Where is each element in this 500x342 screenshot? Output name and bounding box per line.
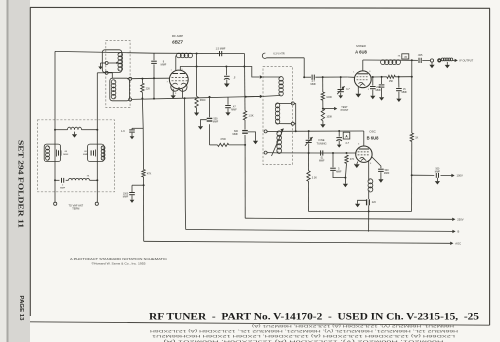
wire 3.3K column xyxy=(308,153,310,171)
left margin strip xyxy=(0,0,30,342)
label TEST POINT xyxy=(341,106,349,112)
bottom rule xyxy=(30,322,490,325)
label 3-7 b xyxy=(345,142,349,145)
wire 100V line xyxy=(412,174,455,177)
svg-text:1K: 1K xyxy=(415,136,418,139)
label .47 MMF xyxy=(231,105,237,111)
wire V7 (B+ column) xyxy=(244,54,247,219)
junction H7 trimmer xyxy=(308,152,310,154)
junction H6 trimmer xyxy=(308,130,310,132)
wire T1b to V2 xyxy=(97,73,105,144)
svg-text:78.: 78. xyxy=(398,56,401,58)
wire right bus xyxy=(411,60,413,211)
label 500 osc xyxy=(384,169,390,175)
capacitor 4.7 MMF xyxy=(304,75,347,80)
resonator R cap xyxy=(91,150,95,157)
svg-text:.005: .005 xyxy=(418,54,423,57)
svg-text:MMF: MMF xyxy=(83,154,89,156)
label 1.5K xyxy=(248,114,253,117)
plate coil 6BZ7 xyxy=(177,53,193,58)
svg-text:3-7: 3-7 xyxy=(345,142,349,145)
svg-text:47K: 47K xyxy=(350,158,355,161)
tube V3 internals xyxy=(358,149,369,161)
label 6BZ7 xyxy=(172,40,183,45)
wire H-cath xyxy=(132,96,263,99)
label 22K xyxy=(146,87,151,90)
resonator L coil xyxy=(46,146,50,160)
node circle T1b xyxy=(105,71,108,74)
node circle W3 top xyxy=(264,130,277,133)
wire H8 xyxy=(308,210,411,212)
svg-text:100K: 100K xyxy=(326,96,332,99)
svg-text:TUNING: TUNING xyxy=(317,141,327,145)
junction cath-V7 xyxy=(245,96,247,98)
label 100K a xyxy=(326,96,332,99)
svg-text:MMF: MMF xyxy=(60,187,66,189)
label 78 xyxy=(398,56,401,58)
svg-text:4700: 4700 xyxy=(220,138,226,141)
wire W2 to H6 xyxy=(294,103,295,131)
tube V2 internals xyxy=(357,74,369,86)
junction H4 bus xyxy=(411,76,413,78)
wire H6 xyxy=(278,131,364,146)
rail B xyxy=(186,230,456,234)
marker box A05 xyxy=(402,54,409,59)
resistor 15K xyxy=(387,75,396,78)
svg-text:A PHOTOFACT STANDARD NOTATION: A PHOTOFACT STANDARD NOTATION SCHEMATIC xyxy=(70,257,168,261)
tube V1 6BZ7 envelope xyxy=(169,70,188,89)
capacitor 220 osc feedthrough xyxy=(355,192,369,212)
resistor 47K osc xyxy=(343,155,348,187)
node circle T1a xyxy=(105,62,108,65)
tube V2 pins xyxy=(353,71,371,91)
svg-text:MMF: MMF xyxy=(376,89,382,92)
wire TEST POINT xyxy=(323,107,337,110)
capacitor 3-7 MMF osc xyxy=(336,131,342,148)
wire V6 screen drop xyxy=(196,54,198,97)
terminal circle ant L xyxy=(54,202,57,205)
resonator box R xyxy=(88,144,104,161)
tube V1 pin labels xyxy=(167,69,189,95)
svg-text:A 6U8: A 6U8 xyxy=(355,49,367,54)
arrow IF OUTPUT xyxy=(453,59,458,62)
svg-text:3-7: 3-7 xyxy=(346,88,350,91)
label 5 MMF xyxy=(336,168,342,174)
coil L2 xyxy=(111,80,116,99)
junction IF node xyxy=(411,59,413,61)
junction 4.7-heater xyxy=(303,76,305,78)
wire heater drop xyxy=(303,58,305,77)
svg-text:MMF: MMF xyxy=(402,91,408,94)
label 1000 MMF xyxy=(123,193,129,199)
svg-text:6800: 6800 xyxy=(200,99,206,102)
svg-text:RF AMP: RF AMP xyxy=(172,34,183,38)
svg-text:RF TUNER - PART No. V-14170-: RF TUNER - PART No. V-14170-2 - USED IN … xyxy=(149,312,480,322)
capacitor .005 xyxy=(412,58,431,63)
svg-text:22K: 22K xyxy=(146,87,151,90)
junction grid 100K xyxy=(322,76,324,78)
node circle W2 bottom xyxy=(291,122,294,125)
svg-text:100K: 100K xyxy=(326,116,332,119)
terminal circle ant R xyxy=(95,202,98,205)
svg-text:MMF: MMF xyxy=(435,171,441,173)
label 2 MMF xyxy=(60,185,66,190)
wire H2 screen xyxy=(180,66,244,70)
coil L1 box (rounded) xyxy=(102,50,122,73)
svg-text:78.: 78. xyxy=(87,175,90,177)
junction input coil right xyxy=(96,129,98,131)
wire V-right through box3 xyxy=(96,144,98,202)
label 500 MMF 100V xyxy=(435,169,441,174)
svg-text:H66M3U2 12L, H66M2U21, H66M2U1: H66M3U2 12L, H66M2U21, H66M2U12L (V), H6… xyxy=(149,329,458,333)
label 4700 xyxy=(220,138,226,141)
label 100K b xyxy=(326,116,332,119)
tube V2 envelope xyxy=(354,71,371,88)
svg-text:OSC: OSC xyxy=(369,130,376,134)
input coil top xyxy=(55,127,97,129)
junction H7 47K xyxy=(346,152,348,154)
junction grid trimmer xyxy=(340,76,342,78)
junction H4 b xyxy=(381,76,383,78)
wire AGC column xyxy=(142,99,143,170)
junction cath-22K xyxy=(141,98,143,100)
ground osc cathode xyxy=(354,162,360,168)
svg-text:MMF: MMF xyxy=(310,83,316,86)
svg-text:1.5 MMF: 1.5 MMF xyxy=(216,48,226,51)
junction input coil left xyxy=(54,129,56,131)
svg-text:PAGE 13: PAGE 13 xyxy=(18,296,24,321)
resistor 3.3K xyxy=(307,171,310,212)
label TO VHF ANT TERM xyxy=(68,205,83,211)
label A 6U8 xyxy=(355,49,367,54)
svg-text:MMF: MMF xyxy=(213,121,219,124)
capacitor .47 MMF xyxy=(225,97,231,116)
junction H2-V6 xyxy=(196,66,198,68)
wire step to mixer grid xyxy=(244,67,259,78)
feedthrough bead xyxy=(437,58,441,62)
capacitor 500 MMF feedthru 100V xyxy=(435,173,440,185)
series coil 78 xyxy=(69,178,98,180)
marker box A xyxy=(343,132,350,139)
series cap 2 MMF xyxy=(55,178,69,183)
rail 250V xyxy=(245,218,455,221)
wire osc to B rail xyxy=(368,211,370,231)
wire coil to junction xyxy=(400,59,412,61)
label OSC xyxy=(369,130,376,134)
label 15K xyxy=(389,80,394,83)
coil L1 xyxy=(118,52,123,71)
resistor 47K xyxy=(142,170,145,178)
resistor 1.5K xyxy=(243,111,246,120)
label 47K xyxy=(147,173,152,176)
label 9 MMF xyxy=(161,60,167,66)
tube V3 pins xyxy=(354,144,372,166)
wire T1b link xyxy=(108,73,112,78)
capacitor 5 MMF xyxy=(330,153,345,178)
ground tube V1 cathode a xyxy=(171,89,176,99)
svg-text:MIXER: MIXER xyxy=(356,44,366,48)
photofact credit xyxy=(70,257,168,266)
wire H4 mixer plate out xyxy=(371,76,412,78)
junction H2 .5MMF xyxy=(225,66,227,68)
capacitor .5 MMF xyxy=(224,67,230,88)
label 220 MMF xyxy=(376,86,382,92)
mixer plate coil xyxy=(381,60,401,65)
wire tube V1 cathode b xyxy=(182,89,184,98)
label 100V xyxy=(457,174,463,178)
label IF OUTPUT xyxy=(460,59,474,63)
label B xyxy=(458,230,460,234)
junction cath V8 xyxy=(209,96,211,98)
svg-text:250V: 250V xyxy=(457,218,463,222)
junction H2 V7 xyxy=(243,66,245,68)
wire mixer plate xyxy=(363,60,381,71)
junction cath-V5 xyxy=(184,97,186,99)
label 47K osc xyxy=(350,158,355,161)
junction H4 15MMF xyxy=(398,76,400,78)
svg-text:H66M2U1, H66M2U2 (V), 12JL2XD6: H66M2U1, H66M2U2 (V), 12JL2XD6H (A) 12JL… xyxy=(252,324,454,328)
node circle T2a xyxy=(127,77,132,80)
heater hook xyxy=(262,53,304,58)
wire H1 top (grid line to RF amp) xyxy=(55,51,245,53)
arrow into box2 upper xyxy=(260,75,263,78)
svg-text:220: 220 xyxy=(372,201,377,204)
svg-text:L2XD66H (A) 12JL2XD66H 12JL2XD: L2XD66H (A) 12JL2XD66H 12JL2XD6H (A) 12J… xyxy=(151,334,455,338)
resistor 22K xyxy=(141,79,144,99)
svg-text:AGC: AGC xyxy=(455,242,461,246)
wire V1 left down xyxy=(54,51,56,202)
junction H6 a xyxy=(295,130,297,132)
oscillator coil xyxy=(368,179,373,192)
label 78 b xyxy=(87,175,90,177)
resonator L cap xyxy=(57,150,61,157)
label .005 xyxy=(418,54,423,57)
wire H7 xyxy=(278,152,357,154)
capacitor 381 stub xyxy=(379,77,385,101)
svg-text:MMF: MMF xyxy=(123,196,129,199)
junction grid-9MMF xyxy=(153,77,155,79)
tube V1 internals xyxy=(172,74,188,85)
junction 100K mid xyxy=(322,100,324,109)
label heater xyxy=(273,53,284,56)
junction grid-22K xyxy=(141,78,143,80)
junction H8 osc xyxy=(368,210,370,212)
vertical text SET 294 FOLDER 11 xyxy=(17,140,26,228)
label MIXER xyxy=(356,44,366,48)
label 6800 xyxy=(200,99,206,102)
slug arrow W3 xyxy=(272,129,284,157)
IF choke xyxy=(441,58,453,61)
shield box 1 (antenna transformer) xyxy=(106,41,130,108)
junction H6 b xyxy=(338,130,340,132)
wire 47K to corner xyxy=(143,177,145,241)
trimmer FINE TUNING xyxy=(305,131,313,153)
wire H-grid (T2a to 6BZ7 grid) xyxy=(132,77,170,80)
ground IF terminal xyxy=(429,62,434,68)
mirrored printthrough text xyxy=(149,324,458,342)
label 3-7 xyxy=(346,88,350,91)
vertical text PAGE 13 xyxy=(18,296,24,321)
label 4.7 MMF xyxy=(310,80,316,86)
coil L2 box (rounded) xyxy=(110,78,130,101)
resistor 6800 xyxy=(194,96,199,116)
label AGC xyxy=(455,242,461,246)
label 15 MMF xyxy=(402,88,408,94)
wire V2 right down xyxy=(106,72,108,74)
junction V7 4700 xyxy=(244,144,246,146)
svg-text:TERM: TERM xyxy=(72,208,79,211)
wire V5 to B rail xyxy=(185,98,186,229)
wire osc 500MMF xyxy=(372,157,381,169)
node circle IF xyxy=(430,59,433,62)
svg-text:MMF: MMF xyxy=(233,133,239,136)
svg-text:MMF: MMF xyxy=(336,171,342,174)
junction H1-V6 xyxy=(196,53,198,55)
capacitor 1000 MMF stub xyxy=(129,185,143,203)
label .01 MMF xyxy=(319,156,325,162)
resistor 100K a xyxy=(321,77,324,100)
capacitor 500 MMF feedthrough xyxy=(198,118,212,129)
svg-text:6.3 V HTR: 6.3 V HTR xyxy=(273,53,284,56)
label RF AMP xyxy=(172,34,183,38)
svg-text:1-9: 1-9 xyxy=(121,130,125,133)
label 500 MMF bus xyxy=(213,118,219,124)
capacitor 15 MMF xyxy=(396,77,402,102)
shield box 2 (interstage transformer) xyxy=(263,67,293,165)
svg-text:B 6U8: B 6U8 xyxy=(367,136,380,141)
ground mixer cathode xyxy=(355,87,361,98)
svg-text:MMF: MMF xyxy=(231,108,237,111)
capacitor 1.5 MMF xyxy=(217,51,222,56)
resistor 1K xyxy=(410,133,413,142)
svg-text:MMF: MMF xyxy=(384,172,390,175)
label B 6U8 xyxy=(367,136,380,141)
svg-text:3.3K: 3.3K xyxy=(312,177,317,180)
resonator box L xyxy=(44,144,60,161)
capacitor .01 MMF xyxy=(321,150,323,155)
junction H7 5MMF xyxy=(332,152,334,154)
wire osc to coil xyxy=(368,160,370,179)
junction cath-9MMF xyxy=(153,98,155,100)
svg-text:MMF: MMF xyxy=(63,154,69,156)
wire V8 down xyxy=(209,97,211,145)
junction series L xyxy=(54,179,56,181)
svg-text:B: B xyxy=(458,230,460,234)
label 3.3K xyxy=(312,177,317,180)
label 1-9 xyxy=(121,130,125,133)
winding W3 xyxy=(277,131,282,154)
label 1.5 MMF xyxy=(216,48,226,51)
arrow into box2 lower xyxy=(246,95,263,98)
label 68 MMF L xyxy=(63,151,69,156)
node circle T2b xyxy=(129,98,132,101)
ground input coil xyxy=(72,132,77,138)
wire T1a tap xyxy=(108,62,118,64)
label 600 MMF xyxy=(233,130,239,136)
tube V3 envelope xyxy=(356,146,372,162)
svg-text:100V: 100V xyxy=(457,174,463,178)
svg-text:15K: 15K xyxy=(389,80,394,83)
label FINE TUNING xyxy=(317,138,327,145)
svg-text:POINT: POINT xyxy=(341,109,349,112)
node circle W3 bottom xyxy=(264,151,277,154)
svg-text:47K: 47K xyxy=(147,173,152,176)
capacitor 9 MMF xyxy=(151,53,157,98)
capacitor 1-9 MMF stub xyxy=(129,128,143,139)
svg-text:MMF: MMF xyxy=(161,63,167,66)
resistor 100K b xyxy=(320,109,325,128)
svg-text:MMF: MMF xyxy=(319,159,325,162)
label 68 MMF R xyxy=(83,151,89,156)
antenna arrow xyxy=(98,63,105,69)
trimmer 3-7 xyxy=(337,77,344,98)
winding W2 xyxy=(275,103,291,124)
label 220 osc xyxy=(372,201,377,204)
label 1K xyxy=(415,136,418,139)
resistor 4700 xyxy=(210,143,246,146)
resonator R coil xyxy=(101,146,105,160)
rail AGC xyxy=(144,241,454,245)
wire plate to tube xyxy=(175,56,177,71)
label 250V xyxy=(457,218,463,222)
label .5 xyxy=(233,75,236,79)
junction H4 220 xyxy=(372,76,374,78)
svg-text:1.5K: 1.5K xyxy=(248,114,253,117)
capacitor 220 MMF xyxy=(370,77,376,99)
svg-text:6BZ7: 6BZ7 xyxy=(172,40,183,45)
capacitor 600 MMF feedthrough xyxy=(242,131,258,145)
shield box 3 (VHF input filter) xyxy=(38,120,115,192)
wire mixer grid xyxy=(347,76,354,78)
winding W1 xyxy=(263,77,283,97)
node circle W2 top xyxy=(291,102,294,105)
title text xyxy=(149,312,480,322)
ground IF choke xyxy=(445,62,450,68)
svg-text:IF OUTPUT: IF OUTPUT xyxy=(460,59,474,63)
svg-text:SET 294 FOLDER 11: SET 294 FOLDER 11 xyxy=(17,140,26,228)
junction series R xyxy=(96,179,98,181)
junction bus 100V xyxy=(411,174,413,176)
svg-text:©Howard W. Sams & Co., Inc. 19: ©Howard W. Sams & Co., Inc. 1955 xyxy=(92,261,147,265)
tube V1 base arcs xyxy=(171,84,187,91)
capacitor 500 MMF osc xyxy=(378,169,384,183)
